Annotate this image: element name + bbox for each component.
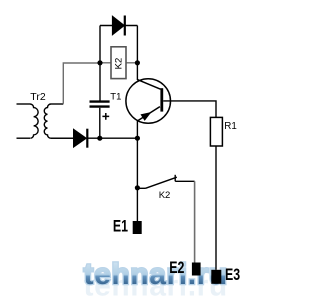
svg-text:T1: T1 <box>110 92 121 103</box>
terminal E3 square <box>211 270 221 284</box>
transformer secondary bottom lead <box>51 137 74 139</box>
svg-text:K2: K2 <box>113 58 124 70</box>
node: junction dot right of K2 <box>135 60 140 65</box>
wire: collector lead <box>136 63 138 80</box>
terminal E1 square <box>133 221 142 234</box>
transistor T1 body circle <box>126 79 171 124</box>
switch K2 fixed contact tick <box>174 175 176 182</box>
wire: flyback loop top (diode D1 leads) <box>100 25 137 27</box>
wire: D2 cathode to emitter junction <box>87 137 137 139</box>
transformer Tr2 primary winding <box>30 104 38 138</box>
capacitor C1 bottom plate <box>90 105 110 107</box>
transistor T1 collector diagonal <box>137 80 160 90</box>
svg-text:K2: K2 <box>159 190 171 201</box>
wire gray: up from transformer to K2 node <box>63 63 100 104</box>
capacitor C1 polarity plus <box>102 113 109 120</box>
node: junction dot left of K2 <box>97 60 102 65</box>
capacitor C1 top plate <box>90 100 110 102</box>
terminal E2 square <box>192 263 201 276</box>
node: junction dot switch branch <box>135 185 140 190</box>
node: junction dot cap/diode <box>97 136 102 141</box>
transformer Tr2 secondary winding <box>44 104 51 138</box>
wire: flyback loop right vertical <box>136 26 138 64</box>
transformer Tr2 primary top lead <box>17 103 31 105</box>
svg-text:E3: E3 <box>225 266 240 284</box>
node: junction dot emitter line <box>135 136 140 141</box>
switch K2 left lead <box>137 187 145 189</box>
wire gray: K2 box left stub <box>100 62 111 64</box>
transistor T1 emitter diagonal <box>138 107 160 121</box>
diode D1 cathode bar <box>124 16 126 36</box>
transistor T1 base bar <box>160 88 163 111</box>
switch K2 blade <box>146 177 177 188</box>
relay coil K2 box <box>111 47 126 79</box>
diode D2 cathode bar <box>86 129 88 148</box>
wire: base to R1 <box>163 101 216 118</box>
diode D2 triangle <box>74 129 87 147</box>
wire gray: K2 box right stub <box>126 62 137 64</box>
diode D1 triangle <box>112 16 124 35</box>
svg-text:R1: R1 <box>224 121 237 132</box>
resistor R1 box <box>210 117 222 146</box>
svg-text:E2: E2 <box>169 259 184 277</box>
wire gray: switch to E2 <box>194 181 196 263</box>
wire: capacitor bottom lead <box>99 108 101 138</box>
transformer Tr2 primary bottom lead <box>17 137 31 139</box>
svg-text:tehnari.ru: tehnari.ru <box>84 258 228 291</box>
wire: emitter lead down to E1 <box>136 121 138 222</box>
switch K2 right lead <box>175 180 194 182</box>
svg-text:Tr2: Tr2 <box>30 91 46 103</box>
transistor T1 emitter arrow (PNP, points to base) <box>141 113 150 121</box>
wire: flyback loop left vertical <box>99 26 101 101</box>
wire: R1 down to E3 <box>215 146 217 270</box>
diode D2 anode lead <box>51 137 74 139</box>
svg-text:E1: E1 <box>113 218 128 236</box>
transformer secondary top lead <box>51 103 63 105</box>
